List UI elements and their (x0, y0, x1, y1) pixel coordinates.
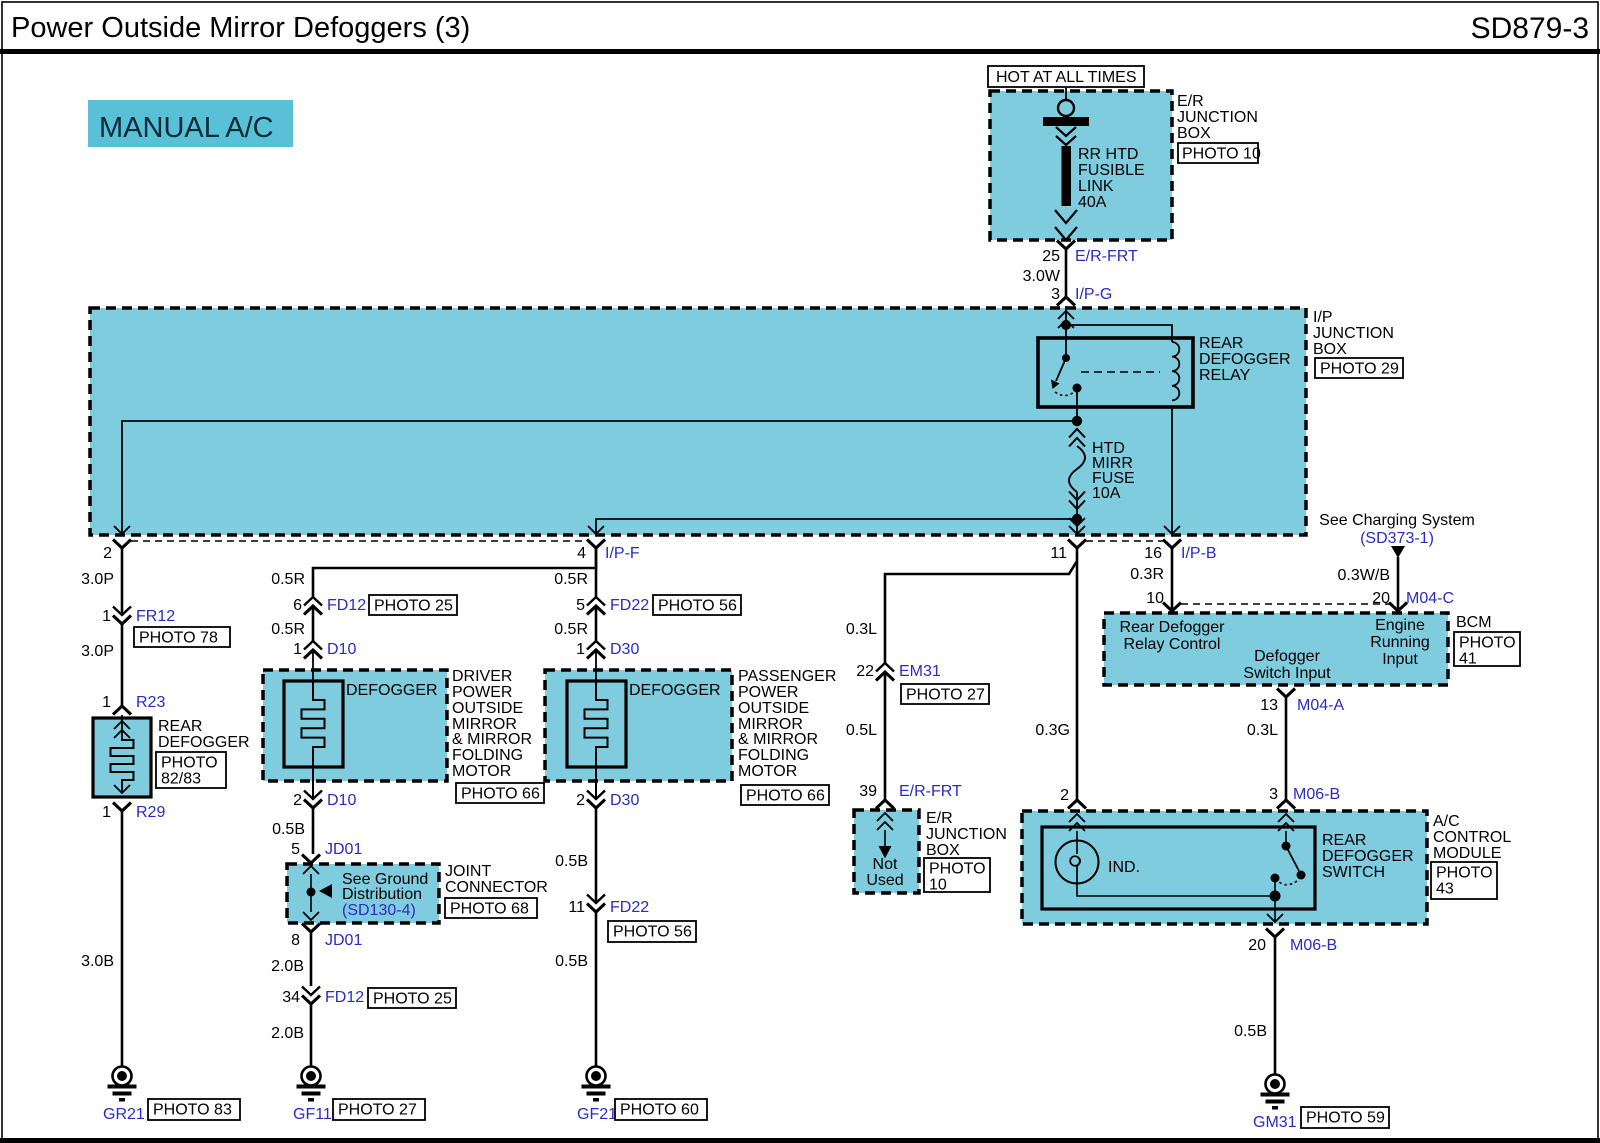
svg-text:Power Outside Mirror Defoggers: Power Outside Mirror Defoggers (3) (11, 12, 470, 44)
svg-text:0.3W/B: 0.3W/B (1338, 567, 1390, 584)
not used stub (877, 813, 893, 859)
svg-text:I/P-F: I/P-F (605, 545, 640, 562)
wire 0.5R passenger (554, 548, 596, 597)
svg-text:0.5R: 0.5R (271, 621, 305, 638)
connector D30 pin 1 (576, 641, 639, 659)
svg-text:EM31: EM31 (899, 663, 941, 680)
wire 0.5B passenger lower (555, 912, 596, 1066)
svg-text:DEFOGGER: DEFOGGER (158, 734, 250, 751)
joint connector label (445, 863, 548, 896)
svg-text:FOLDING: FOLDING (738, 747, 809, 764)
svg-text:FUSIBLE: FUSIBLE (1078, 162, 1145, 179)
A/C control module label (1433, 813, 1511, 862)
ground GF11 (293, 1067, 332, 1124)
svg-text:5: 5 (291, 841, 300, 858)
svg-text:GM31: GM31 (1253, 1114, 1297, 1131)
svg-text:PHOTO 66: PHOTO 66 (746, 788, 825, 805)
wire 0.3R (1130, 548, 1172, 611)
svg-text:D10: D10 (327, 792, 356, 809)
svg-text:DEFOGGER: DEFOGGER (1322, 848, 1414, 865)
connector D10 pin 1 (293, 641, 356, 659)
joint connector note (342, 871, 428, 919)
PHOTO 83 box (148, 1099, 240, 1120)
svg-text:MOTOR: MOTOR (452, 763, 511, 780)
joint connector box (287, 864, 439, 923)
connector link pins 11-16 (dashed) (1086, 540, 1163, 542)
svg-text:M06-B: M06-B (1293, 786, 1340, 803)
pin 2 exit arrow (114, 526, 130, 534)
svg-text:3: 3 (1269, 786, 1278, 803)
svg-text:LINK: LINK (1078, 178, 1114, 195)
svg-text:Running: Running (1370, 634, 1430, 651)
not used label (866, 856, 903, 889)
svg-text:BOX: BOX (926, 842, 960, 859)
svg-text:1: 1 (293, 641, 302, 658)
svg-text:Switch Input: Switch Input (1243, 665, 1331, 682)
node fuse top junction (1072, 416, 1082, 426)
svg-text:DEFOGGER: DEFOGGER (346, 682, 438, 699)
svg-text:39: 39 (859, 783, 877, 800)
ground GF21 (577, 1067, 617, 1124)
driver defogger element (302, 650, 325, 799)
svg-text:Engine: Engine (1375, 617, 1425, 634)
svg-text:PASSENGER: PASSENGER (738, 668, 836, 685)
svg-text:1: 1 (576, 641, 585, 658)
svg-text:0.3L: 0.3L (1247, 722, 1278, 739)
svg-text:43: 43 (1436, 881, 1454, 898)
rear defogger resistor box (93, 718, 151, 797)
PHOTO 60 box (615, 1099, 707, 1120)
wire 0.5R driver label (271, 571, 305, 588)
svg-text:20: 20 (1248, 937, 1266, 954)
PHOTO 27 box (bottom) (333, 1099, 425, 1120)
I/P junction box (90, 308, 1306, 535)
svg-text:Relay Control: Relay Control (1124, 636, 1221, 653)
lamp return wire (1077, 884, 1274, 896)
passenger motor label (738, 668, 836, 780)
svg-text:0.5B: 0.5B (555, 853, 588, 870)
PHOTO 43 box (1431, 862, 1497, 899)
PHOTO 56 box (upper) (653, 595, 741, 615)
svg-text:6: 6 (293, 597, 302, 614)
svg-text:10: 10 (1146, 590, 1164, 607)
svg-text:PHOTO 27: PHOTO 27 (906, 687, 985, 704)
PHOTO 56 box (lower) (608, 921, 696, 942)
wire 0.5L (846, 672, 885, 800)
svg-text:REAR: REAR (1199, 335, 1243, 352)
svg-text:2: 2 (293, 792, 302, 809)
connector pin 25 E/R-FRT (1042, 241, 1138, 266)
connector pin 16 I/P-B (1144, 540, 1216, 563)
svg-text:GF11: GF11 (293, 1106, 332, 1123)
svg-text:3.0W: 3.0W (1023, 268, 1061, 285)
fusible link RR HTD 40A (1062, 146, 1145, 211)
relay mechanical link (dashed) (1081, 371, 1160, 373)
svg-text:E/R: E/R (926, 810, 953, 827)
connector BCM pin 10 (1163, 603, 1181, 612)
connector pin 3 I/P-G (1051, 286, 1112, 306)
ground GR21 (103, 1067, 145, 1124)
svg-text:GR21: GR21 (103, 1106, 145, 1123)
svg-text:5: 5 (576, 597, 585, 614)
PHOTO 41 box (1454, 632, 1520, 668)
svg-text:FD12: FD12 (325, 989, 364, 1006)
svg-text:D30: D30 (610, 792, 639, 809)
svg-text:JD01: JD01 (325, 841, 362, 858)
svg-text:PHOTO 10: PHOTO 10 (1182, 146, 1261, 163)
pin 3 entry arrows (1058, 311, 1074, 328)
wire fuse to pin 11 (1076, 519, 1078, 534)
switch output wire (1267, 896, 1283, 922)
wire I/P-G to relay (1065, 306, 1067, 357)
svg-text:IND.: IND. (1108, 859, 1140, 876)
PHOTO 10 box (top) (1178, 143, 1261, 163)
connector pin 20 M06-B (1248, 929, 1337, 955)
svg-text:PHOTO: PHOTO (1459, 635, 1516, 652)
svg-text:(SD130-4): (SD130-4) (342, 902, 416, 919)
svg-text:MODULE: MODULE (1433, 845, 1501, 862)
connector EM31 pin 22 (856, 663, 941, 681)
svg-text:16: 16 (1144, 545, 1162, 562)
svg-text:34: 34 (282, 989, 300, 1006)
svg-text:20: 20 (1372, 590, 1390, 607)
passenger defogger box (545, 670, 732, 781)
relay coil (1172, 342, 1179, 400)
svg-text:PHOTO 83: PHOTO 83 (153, 1102, 232, 1119)
wire I/P-F split (313, 548, 596, 597)
battery feed symbol (1043, 88, 1089, 145)
svg-text:A/C: A/C (1433, 813, 1460, 830)
passenger defogger element (585, 650, 608, 799)
svg-text:2: 2 (103, 545, 112, 562)
connector R29 pin 1 (102, 803, 165, 822)
HOT AT ALL TIMES box (988, 66, 1144, 87)
fuse HTD MIRR 10A (1069, 429, 1135, 519)
svg-text:RR HTD: RR HTD (1078, 146, 1138, 163)
svg-text:Distribution: Distribution (342, 886, 422, 903)
wire 3.0W (1023, 249, 1066, 297)
rear defogger switch label (1322, 832, 1414, 881)
connector JD01 pin 5 (291, 841, 362, 863)
connector pin 2 (103, 540, 131, 563)
pin 3 entry arrows (1278, 814, 1294, 831)
BCM pin function labels (1120, 617, 1430, 682)
wire 2.0B lower (271, 1004, 311, 1066)
svg-text:2: 2 (576, 792, 585, 809)
svg-text:13: 13 (1260, 697, 1278, 714)
svg-text:OUTSIDE: OUTSIDE (452, 700, 523, 717)
wire 0.3L label (846, 621, 877, 638)
svg-text:3.0P: 3.0P (81, 571, 114, 588)
rear defogger label (158, 718, 250, 751)
svg-text:I/P-G: I/P-G (1075, 286, 1112, 303)
svg-text:0.5L: 0.5L (846, 722, 877, 739)
PHOTO 59 box (1301, 1107, 1389, 1128)
connector FD22 pin 11 (568, 895, 649, 917)
BCM label (1456, 614, 1492, 631)
svg-text:0.5R: 0.5R (271, 571, 305, 588)
svg-text:CONNECTOR: CONNECTOR (445, 879, 548, 896)
svg-text:DEFOGGER: DEFOGGER (1199, 351, 1291, 368)
svg-text:41: 41 (1459, 651, 1477, 668)
connector R23 pin 1 (102, 694, 165, 715)
driver motor label (452, 668, 532, 780)
wire relay output to fuse node (1076, 388, 1078, 421)
diagram number SD879-3 (1471, 12, 1589, 45)
pin 11 exit arrows (1069, 518, 1085, 534)
svg-text:Used: Used (866, 872, 903, 889)
svg-text:RELAY: RELAY (1199, 367, 1251, 384)
svg-text:PHOTO 29: PHOTO 29 (1320, 361, 1399, 378)
svg-text:CONTROL: CONTROL (1433, 829, 1511, 846)
svg-text:Rear Defogger: Rear Defogger (1120, 619, 1226, 636)
svg-text:1: 1 (102, 804, 111, 821)
rear defogger entry arrows (114, 715, 130, 740)
svg-text:3: 3 (1051, 286, 1060, 303)
wire 3.0B (81, 811, 122, 1066)
svg-text:FD12: FD12 (327, 597, 366, 614)
PHOTO 66 box (driver) (456, 783, 544, 803)
svg-text:PHOTO 56: PHOTO 56 (658, 598, 737, 615)
connector D10 pin 2 (293, 791, 356, 810)
svg-text:SD879-3: SD879-3 (1471, 12, 1589, 45)
driver defogger inner box (284, 681, 343, 767)
svg-text:8: 8 (291, 932, 300, 949)
svg-text:PHOTO 68: PHOTO 68 (450, 901, 529, 918)
svg-text:DRIVER: DRIVER (452, 668, 512, 685)
svg-text:1: 1 (102, 694, 111, 711)
svg-text:JUNCTION: JUNCTION (1313, 325, 1394, 342)
wire 2.0B upper (271, 932, 311, 986)
A/C module inner box (1042, 827, 1315, 909)
wire coil to pin 16 (1171, 407, 1173, 534)
svg-text:PHOTO 59: PHOTO 59 (1306, 1110, 1385, 1127)
driver defogger label (346, 682, 438, 699)
connector FD12 pin 34 (282, 987, 364, 1007)
header separator bar (0, 49, 1600, 54)
svg-text:11: 11 (568, 899, 585, 916)
wire 0.5B driver (272, 808, 313, 854)
svg-text:FOLDING: FOLDING (452, 747, 523, 764)
connector D30 pin 2 (576, 791, 639, 810)
svg-text:PHOTO 27: PHOTO 27 (338, 1102, 417, 1119)
svg-text:BOX: BOX (1313, 341, 1347, 358)
svg-text:HOT AT ALL TIMES: HOT AT ALL TIMES (996, 69, 1137, 86)
svg-text:40A: 40A (1078, 194, 1107, 211)
svg-text:R29: R29 (136, 804, 165, 821)
svg-text:0.5R: 0.5R (554, 621, 588, 638)
wire branch to EM31 (885, 561, 1077, 663)
svg-text:See Charging System: See Charging System (1319, 512, 1475, 529)
svg-text:0.3R: 0.3R (1130, 566, 1164, 583)
svg-text:JUNCTION: JUNCTION (926, 826, 1007, 843)
svg-text:11: 11 (1050, 545, 1067, 562)
driver defogger box (263, 670, 447, 781)
relay output contact (1073, 384, 1082, 393)
wire to relay coil (1066, 325, 1172, 342)
PHOTO 25 box (upper) (369, 595, 457, 615)
svg-text:I/P: I/P (1313, 309, 1333, 326)
pin 2 entry arrows (1069, 814, 1085, 831)
svg-text:0.5B: 0.5B (1234, 1023, 1267, 1040)
PHOTO 27 box (EM31) (901, 684, 989, 704)
svg-text:0.5R: 0.5R (554, 571, 588, 588)
svg-text:MOTOR: MOTOR (738, 763, 797, 780)
connector JD01 pin 8 (291, 924, 362, 950)
connector FD22 pin 5 (576, 597, 649, 615)
svg-text:E/R-FRT: E/R-FRT (1075, 248, 1138, 265)
wire 0.5R passenger 2 (554, 606, 596, 641)
svg-text:DEFOGGER: DEFOGGER (629, 682, 721, 699)
svg-text:PHOTO 56: PHOTO 56 (613, 924, 692, 941)
svg-text:FD22: FD22 (610, 597, 649, 614)
relay switch arm (1051, 358, 1066, 389)
joint connector internals (303, 866, 332, 920)
PHOTO 78 box (134, 627, 230, 647)
svg-text:0.5B: 0.5B (555, 953, 588, 970)
I/P junction box label (1313, 309, 1394, 358)
E/R junction box label (1177, 93, 1258, 142)
BCM box (1104, 613, 1448, 685)
svg-text:Input: Input (1382, 651, 1418, 668)
svg-text:BCM: BCM (1456, 614, 1492, 631)
svg-text:GF21: GF21 (577, 1106, 617, 1123)
svg-text:PHOTO 60: PHOTO 60 (620, 1102, 699, 1119)
connector FR12 pin 1 (102, 607, 175, 626)
pin 16 exit arrow (1164, 526, 1180, 534)
wire fuse to pin 4 (596, 519, 1077, 534)
svg-text:JD01: JD01 (325, 932, 362, 949)
rear defogger exit arrow (114, 785, 130, 793)
pin 4 exit arrow (588, 526, 604, 534)
svg-text:PHOTO: PHOTO (1436, 865, 1493, 882)
charging system feed arrow (1391, 546, 1405, 558)
ground GM31 (1253, 1075, 1297, 1132)
E/R junction box (top) (990, 91, 1172, 240)
svg-text:25: 25 (1042, 248, 1060, 265)
svg-text:FR12: FR12 (136, 608, 175, 625)
A/C control module box (1022, 811, 1427, 924)
svg-text:PHOTO 25: PHOTO 25 (374, 598, 453, 615)
connector pin 2 A/C (1068, 800, 1086, 809)
svg-text:3.0B: 3.0B (81, 953, 114, 970)
wire 3.0P upper (81, 548, 122, 615)
passenger defogger label (629, 682, 721, 699)
wire 0.3G main (1035, 548, 1077, 800)
svg-text:PHOTO 78: PHOTO 78 (139, 630, 218, 647)
svg-text:0.3G: 0.3G (1035, 722, 1070, 739)
wire 3.0P lower (81, 624, 122, 706)
wire 0.5B (GM31) (1234, 937, 1275, 1074)
svg-text:10A: 10A (1092, 485, 1121, 502)
relay switch travel (dotted) (1055, 392, 1074, 396)
svg-text:22: 22 (856, 663, 874, 680)
connector pin 4 I/P-F (577, 540, 640, 563)
svg-text:REAR: REAR (158, 718, 202, 735)
connector pin 39 E/R-FRT (859, 783, 962, 809)
rear defogger element (111, 738, 134, 788)
relay switch common contact (1062, 354, 1070, 362)
PHOTO 68 box (445, 898, 537, 918)
svg-text:PHOTO 25: PHOTO 25 (373, 991, 452, 1008)
PHOTO 29 box (1315, 358, 1403, 378)
svg-text:POWER: POWER (452, 684, 512, 701)
svg-text:PHOTO 66: PHOTO 66 (461, 786, 540, 803)
svg-text:2.0B: 2.0B (271, 1025, 304, 1042)
fusible link output arrows (1055, 210, 1077, 240)
svg-text:POWER: POWER (738, 684, 798, 701)
connector BCM pin 20 M04-C (1389, 590, 1454, 611)
svg-text:2.0B: 2.0B (271, 958, 304, 975)
svg-text:3.0P: 3.0P (81, 643, 114, 660)
svg-text:(SD373-1): (SD373-1) (1360, 530, 1434, 547)
svg-text:1: 1 (102, 608, 111, 625)
svg-text:Not: Not (873, 856, 898, 873)
wire 0.3L (switch input) (1247, 697, 1286, 800)
relay box REAR DEFOGGER RELAY (1038, 335, 1291, 407)
bottom border bar (0, 1138, 1600, 1143)
svg-text:MANUAL A/C: MANUAL A/C (99, 112, 274, 144)
wire pin 2 entry label (1060, 787, 1069, 804)
svg-text:0.5B: 0.5B (272, 821, 305, 838)
svg-text:PHOTO: PHOTO (929, 861, 986, 878)
PHOTO 25 box (lower) (368, 988, 456, 1008)
connector BCM pin 13 M04-A (1260, 689, 1344, 715)
PHOTO 10 box (lower) (924, 858, 990, 894)
defogger switch (1271, 831, 1306, 896)
svg-text:R23: R23 (136, 694, 165, 711)
svg-text:Defogger: Defogger (1254, 648, 1320, 665)
wire 0.5B passenger upper (555, 808, 596, 903)
svg-text:82/83: 82/83 (161, 771, 201, 788)
svg-text:BOX: BOX (1177, 125, 1211, 142)
passenger defogger inner box (567, 681, 626, 767)
svg-text:2: 2 (1060, 787, 1069, 804)
indicator lamp IND. (1056, 831, 1141, 884)
svg-text:JUNCTION: JUNCTION (1177, 109, 1258, 126)
svg-text:I/P-B: I/P-B (1181, 545, 1217, 562)
E/R junction box (not used) (854, 810, 919, 893)
svg-text:M04-C: M04-C (1406, 590, 1454, 607)
svg-text:0.3L: 0.3L (846, 621, 877, 638)
E/R junction box label (lower) (926, 810, 1007, 859)
connector link pins 2-4 (dashed) (131, 540, 587, 542)
connector link pins 10-20 (dashed) (1181, 603, 1389, 605)
svg-text:D30: D30 (610, 641, 639, 658)
node relay feed junction (1061, 320, 1071, 330)
connector pin 11 (1050, 540, 1086, 563)
svg-text:M04-A: M04-A (1297, 697, 1344, 714)
svg-text:D10: D10 (327, 641, 356, 658)
svg-text:M06-B: M06-B (1290, 937, 1337, 954)
see charging system note (1319, 512, 1475, 547)
PHOTO 66 box (passenger) (741, 785, 829, 805)
svg-text:4: 4 (577, 545, 586, 562)
svg-text:& MIRROR: & MIRROR (738, 731, 818, 748)
svg-text:PHOTO: PHOTO (161, 755, 218, 772)
svg-text:10: 10 (929, 877, 947, 894)
wire relay feedback to pin 2 (122, 421, 1077, 534)
PHOTO 82/83 box (156, 752, 226, 788)
connector FD12 pin 6 (293, 597, 366, 615)
svg-text:JOINT: JOINT (445, 863, 491, 880)
MANUAL A/C callout box (88, 100, 293, 147)
wire 0.3W/B (1338, 557, 1398, 611)
wire 0.5R driver 2 (271, 606, 313, 641)
svg-text:E/R-FRT: E/R-FRT (899, 783, 962, 800)
svg-text:& MIRROR: & MIRROR (452, 731, 532, 748)
svg-text:E/R: E/R (1177, 93, 1204, 110)
